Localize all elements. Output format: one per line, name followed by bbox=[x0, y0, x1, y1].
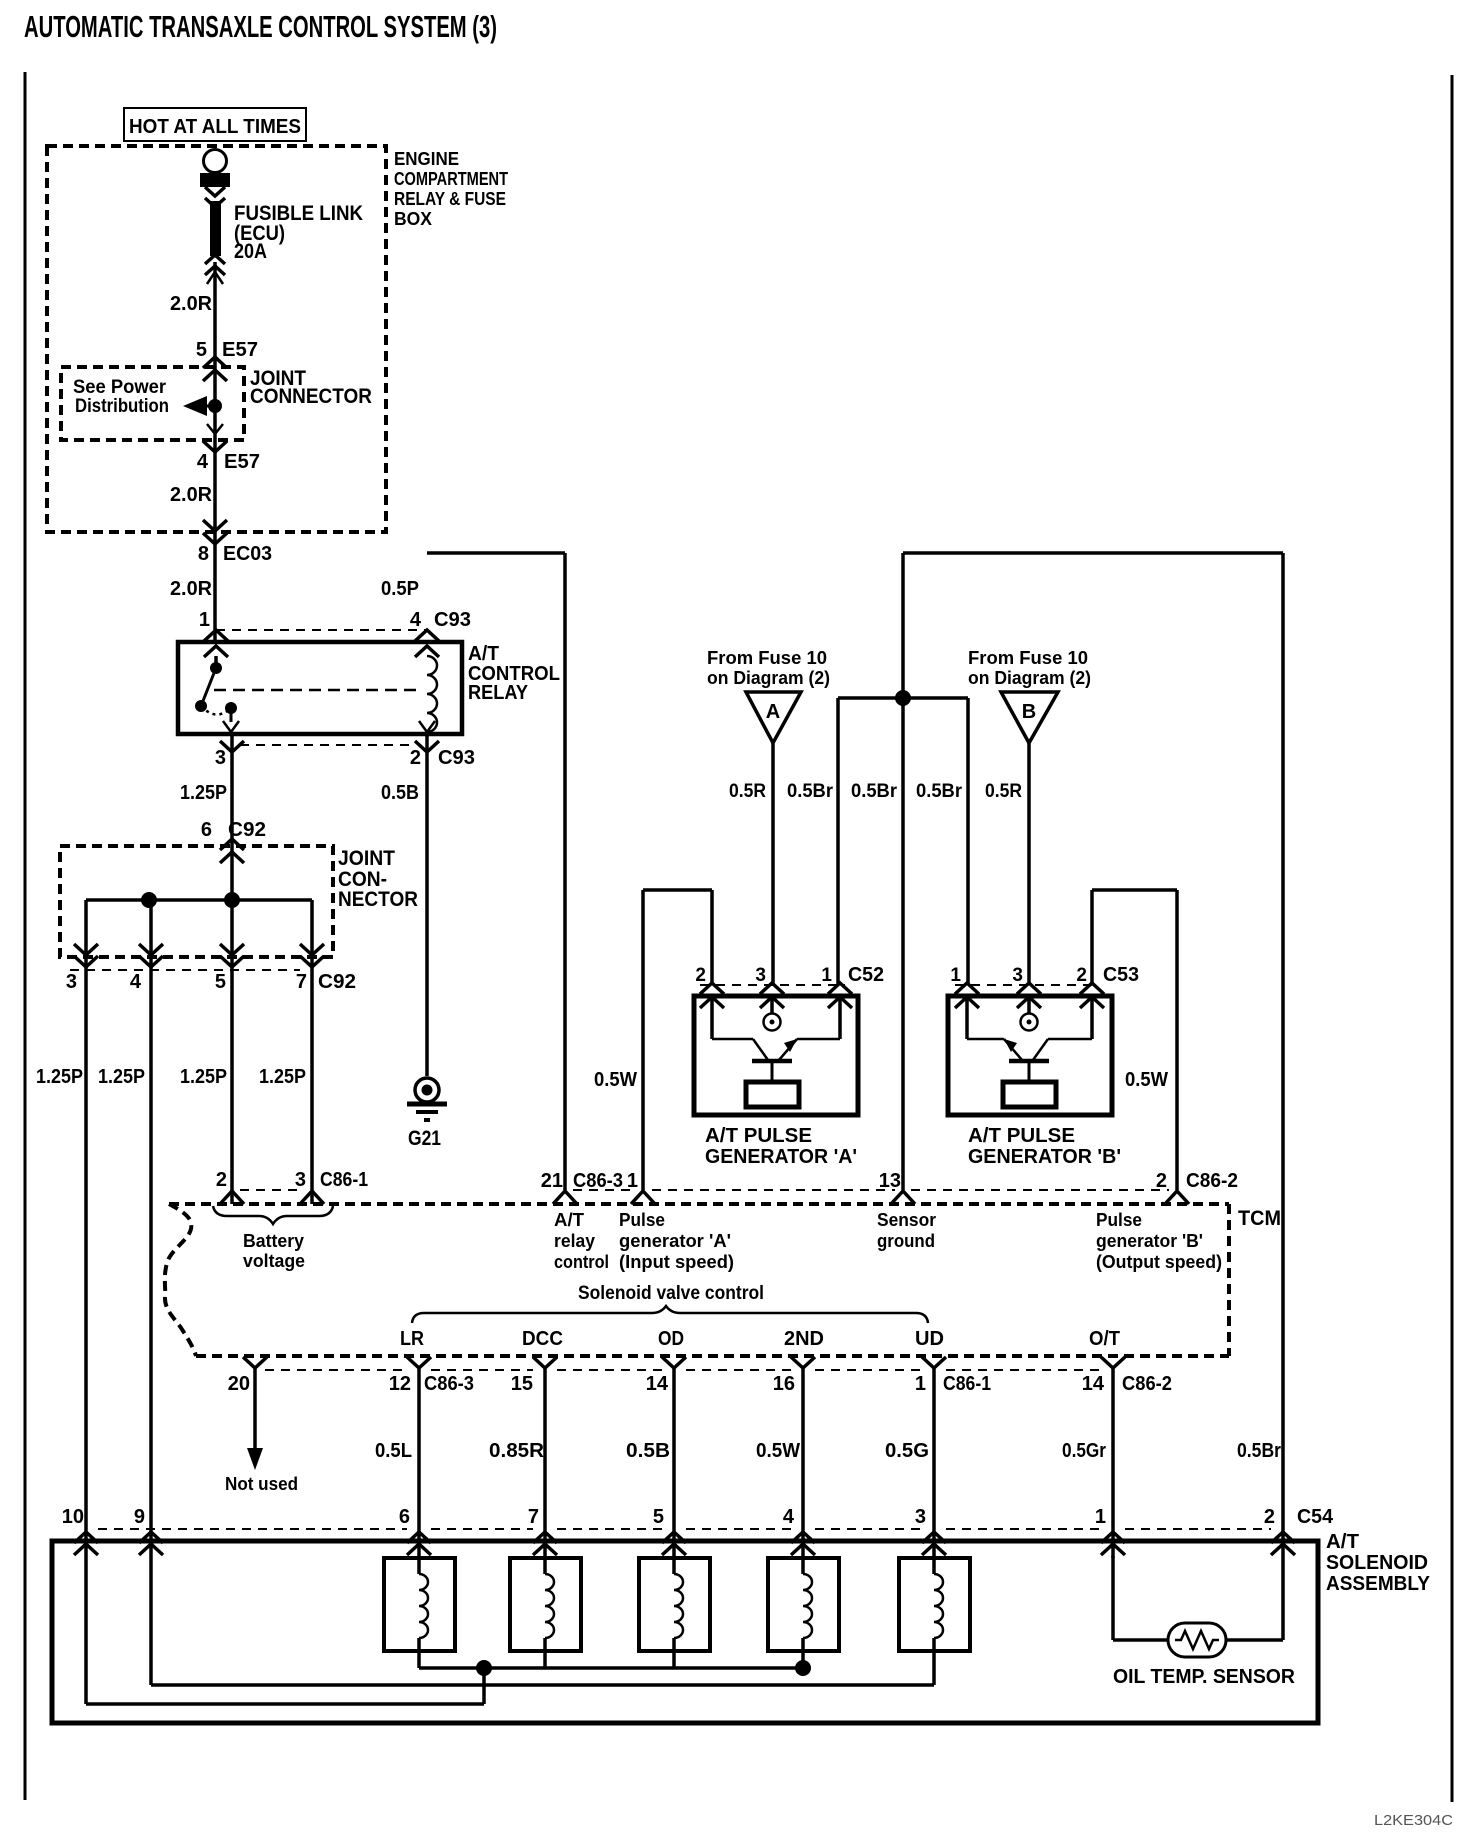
svg-text:2: 2 bbox=[410, 747, 421, 769]
svg-text:A/T PULSE: A/T PULSE bbox=[968, 1125, 1075, 1147]
svg-text:C86-3: C86-3 bbox=[573, 1170, 623, 1192]
svg-text:4: 4 bbox=[783, 1506, 795, 1528]
svg-text:E57: E57 bbox=[224, 451, 260, 473]
svg-text:1: 1 bbox=[627, 1170, 638, 1192]
svg-text:0.5W: 0.5W bbox=[1125, 1069, 1168, 1091]
svg-text:Distribution: Distribution bbox=[75, 396, 169, 417]
svg-text:3: 3 bbox=[915, 1506, 926, 1528]
svg-text:2ND: 2ND bbox=[784, 1328, 824, 1350]
svg-text:14: 14 bbox=[1082, 1373, 1105, 1395]
svg-text:C93: C93 bbox=[438, 747, 475, 769]
svg-text:2.0R: 2.0R bbox=[170, 484, 213, 506]
svg-text:ENGINE: ENGINE bbox=[394, 149, 459, 169]
svg-text:RELAY: RELAY bbox=[468, 682, 529, 704]
svg-text:NECTOR: NECTOR bbox=[338, 888, 418, 911]
svg-text:A/T PULSE: A/T PULSE bbox=[705, 1125, 812, 1147]
svg-text:7: 7 bbox=[528, 1506, 539, 1528]
svg-text:3: 3 bbox=[295, 1169, 306, 1191]
svg-text:1.25P: 1.25P bbox=[98, 1066, 145, 1088]
svg-text:1: 1 bbox=[915, 1373, 926, 1395]
svg-text:12: 12 bbox=[389, 1373, 411, 1395]
svg-text:7: 7 bbox=[296, 971, 307, 993]
svg-text:control: control bbox=[554, 1252, 609, 1272]
svg-text:RELAY & FUSE: RELAY & FUSE bbox=[394, 189, 506, 209]
svg-text:AUTOMATIC TRANSAXLE CONTROL SY: AUTOMATIC TRANSAXLE CONTROL SYSTEM (3) bbox=[24, 9, 497, 44]
svg-text:9: 9 bbox=[134, 1506, 145, 1528]
svg-text:G21: G21 bbox=[408, 1127, 441, 1150]
svg-text:A/T: A/T bbox=[554, 1210, 584, 1230]
svg-text:(Output speed): (Output speed) bbox=[1096, 1252, 1222, 1272]
svg-text:CONNECTOR: CONNECTOR bbox=[250, 385, 372, 408]
svg-text:0.5Br: 0.5Br bbox=[916, 781, 963, 802]
svg-text:ASSEMBLY: ASSEMBLY bbox=[1326, 1573, 1431, 1595]
svg-text:A/T: A/T bbox=[1326, 1531, 1359, 1553]
svg-text:C86-2: C86-2 bbox=[1186, 1170, 1238, 1192]
svg-text:OIL TEMP. SENSOR: OIL TEMP. SENSOR bbox=[1113, 1666, 1296, 1688]
svg-text:0.5L: 0.5L bbox=[375, 1440, 412, 1462]
svg-text:COMPARTMENT: COMPARTMENT bbox=[394, 169, 508, 189]
svg-text:6: 6 bbox=[201, 819, 212, 841]
svg-text:6: 6 bbox=[399, 1506, 410, 1528]
svg-text:C86-3: C86-3 bbox=[424, 1373, 474, 1395]
svg-text:14: 14 bbox=[646, 1373, 669, 1395]
svg-text:2.0R: 2.0R bbox=[170, 578, 213, 600]
svg-text:2.0R: 2.0R bbox=[170, 293, 213, 315]
svg-text:2: 2 bbox=[695, 965, 706, 986]
svg-text:1.25P: 1.25P bbox=[259, 1066, 306, 1088]
svg-text:3: 3 bbox=[755, 965, 766, 986]
svg-text:Solenoid valve control: Solenoid valve control bbox=[578, 1283, 764, 1304]
svg-text:DCC: DCC bbox=[522, 1328, 563, 1350]
svg-text:Battery: Battery bbox=[243, 1231, 304, 1251]
svg-text:generator 'A': generator 'A' bbox=[619, 1231, 731, 1251]
svg-text:4: 4 bbox=[410, 609, 422, 631]
svg-text:L2KE304C: L2KE304C bbox=[1374, 1812, 1453, 1829]
svg-text:3: 3 bbox=[1012, 965, 1023, 986]
svg-text:0.5B: 0.5B bbox=[381, 782, 419, 804]
svg-text:B: B bbox=[1022, 701, 1036, 723]
svg-text:0.5Gr: 0.5Gr bbox=[1062, 1440, 1106, 1462]
svg-text:E57: E57 bbox=[222, 339, 258, 361]
svg-text:on Diagram (2): on Diagram (2) bbox=[707, 668, 830, 688]
svg-text:2: 2 bbox=[1076, 965, 1087, 986]
svg-text:C86-2: C86-2 bbox=[1122, 1373, 1172, 1395]
svg-text:A/T: A/T bbox=[468, 643, 499, 665]
svg-text:0.5G: 0.5G bbox=[885, 1440, 929, 1462]
svg-text:0.85R: 0.85R bbox=[489, 1440, 545, 1462]
svg-text:0.5W: 0.5W bbox=[594, 1069, 637, 1091]
svg-text:1: 1 bbox=[821, 965, 832, 986]
svg-text:generator 'B': generator 'B' bbox=[1096, 1231, 1203, 1251]
svg-text:Pulse: Pulse bbox=[619, 1210, 665, 1230]
svg-text:1: 1 bbox=[950, 965, 961, 986]
svg-text:0.5W: 0.5W bbox=[756, 1440, 800, 1462]
svg-text:EC03: EC03 bbox=[223, 543, 272, 565]
svg-text:HOT AT ALL TIMES: HOT AT ALL TIMES bbox=[129, 116, 301, 138]
svg-text:2: 2 bbox=[216, 1169, 227, 1191]
svg-text:C86-1: C86-1 bbox=[943, 1373, 991, 1395]
svg-text:JOINT: JOINT bbox=[338, 847, 395, 870]
svg-text:4: 4 bbox=[130, 971, 142, 993]
svg-text:Sensor: Sensor bbox=[877, 1210, 936, 1230]
svg-text:relay: relay bbox=[554, 1231, 595, 1251]
svg-text:8: 8 bbox=[198, 543, 209, 565]
svg-text:13: 13 bbox=[879, 1170, 901, 1192]
svg-text:0.5R: 0.5R bbox=[729, 781, 766, 802]
svg-text:3: 3 bbox=[66, 971, 77, 993]
svg-text:2: 2 bbox=[1264, 1506, 1275, 1528]
svg-text:1.25P: 1.25P bbox=[36, 1066, 83, 1088]
svg-text:(Input speed): (Input speed) bbox=[619, 1252, 734, 1272]
svg-text:C52: C52 bbox=[848, 964, 884, 986]
svg-text:GENERATOR 'A': GENERATOR 'A' bbox=[705, 1146, 857, 1168]
svg-text:C93: C93 bbox=[434, 609, 471, 631]
svg-text:on Diagram (2): on Diagram (2) bbox=[968, 668, 1091, 688]
svg-text:C92: C92 bbox=[318, 971, 356, 993]
svg-text:Not used: Not used bbox=[225, 1474, 298, 1494]
svg-text:2: 2 bbox=[1156, 1170, 1167, 1192]
svg-text:1.25P: 1.25P bbox=[180, 1066, 227, 1088]
svg-text:0.5Br: 0.5Br bbox=[851, 781, 898, 802]
svg-text:LR: LR bbox=[400, 1328, 424, 1350]
svg-text:5: 5 bbox=[196, 339, 207, 361]
svg-text:TCM: TCM bbox=[1238, 1207, 1281, 1230]
svg-text:3: 3 bbox=[215, 747, 226, 769]
svg-text:1: 1 bbox=[199, 609, 210, 631]
svg-text:See Power: See Power bbox=[73, 377, 167, 398]
svg-text:Pulse: Pulse bbox=[1096, 1210, 1142, 1230]
svg-text:0.5Br: 0.5Br bbox=[1237, 1440, 1281, 1462]
svg-text:4: 4 bbox=[197, 451, 209, 473]
svg-text:UD: UD bbox=[915, 1328, 944, 1350]
svg-text:15: 15 bbox=[511, 1373, 533, 1395]
svg-text:From Fuse 10: From Fuse 10 bbox=[707, 648, 827, 668]
svg-text:0.5B: 0.5B bbox=[626, 1440, 670, 1462]
svg-text:1: 1 bbox=[1095, 1506, 1106, 1528]
svg-text:SOLENOID: SOLENOID bbox=[1326, 1552, 1428, 1574]
svg-text:20A: 20A bbox=[234, 240, 267, 263]
svg-text:voltage: voltage bbox=[243, 1251, 305, 1271]
svg-text:OD: OD bbox=[658, 1328, 684, 1350]
svg-text:5: 5 bbox=[653, 1506, 664, 1528]
svg-text:10: 10 bbox=[62, 1506, 84, 1528]
svg-text:ground: ground bbox=[877, 1231, 935, 1251]
svg-text:C53: C53 bbox=[1103, 964, 1139, 986]
svg-text:C54: C54 bbox=[1297, 1506, 1334, 1528]
svg-text:BOX: BOX bbox=[394, 209, 432, 229]
svg-text:GENERATOR 'B': GENERATOR 'B' bbox=[968, 1146, 1121, 1168]
svg-text:O/T: O/T bbox=[1089, 1328, 1120, 1350]
svg-text:1.25P: 1.25P bbox=[180, 782, 227, 804]
svg-text:From Fuse 10: From Fuse 10 bbox=[968, 648, 1088, 668]
svg-text:0.5R: 0.5R bbox=[985, 781, 1022, 802]
svg-text:C92: C92 bbox=[228, 819, 266, 841]
svg-text:0.5P: 0.5P bbox=[381, 578, 419, 600]
svg-text:16: 16 bbox=[773, 1373, 795, 1395]
svg-text:21: 21 bbox=[541, 1170, 563, 1192]
svg-text:20: 20 bbox=[228, 1373, 250, 1395]
svg-text:0.5Br: 0.5Br bbox=[787, 781, 834, 802]
svg-text:5: 5 bbox=[215, 971, 226, 993]
svg-text:C86-1: C86-1 bbox=[320, 1169, 368, 1191]
svg-text:A: A bbox=[766, 701, 780, 723]
